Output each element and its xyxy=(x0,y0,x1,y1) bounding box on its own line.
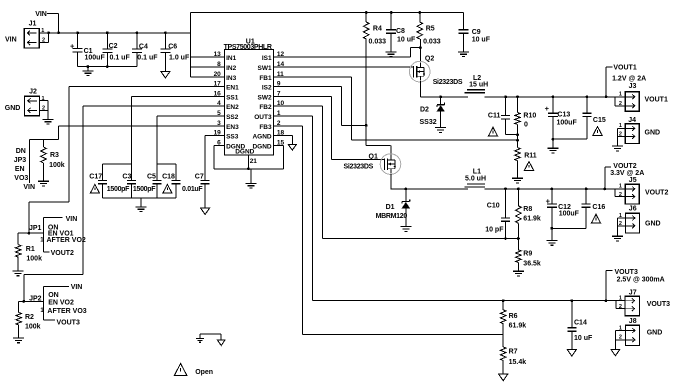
svg-text:C10: C10 xyxy=(487,203,500,210)
svg-text:R8: R8 xyxy=(523,206,532,213)
svg-text:C11: C11 xyxy=(488,113,501,120)
svg-text:VOUT3: VOUT3 xyxy=(57,319,80,326)
svg-text:R5: R5 xyxy=(426,26,435,33)
svg-text:3.3V @ 2A: 3.3V @ 2A xyxy=(610,170,644,177)
svg-text:1: 1 xyxy=(619,296,622,302)
svg-text:VIN: VIN xyxy=(35,11,47,18)
svg-text:5.0 uH: 5.0 uH xyxy=(465,176,486,183)
svg-text:VOUT3: VOUT3 xyxy=(615,269,638,276)
svg-text:DGND: DGND xyxy=(235,148,254,155)
svg-text:R7: R7 xyxy=(509,349,518,356)
svg-text:10 uF: 10 uF xyxy=(472,37,491,44)
svg-text:0.1 uF: 0.1 uF xyxy=(137,54,158,61)
svg-text:SS2: SS2 xyxy=(226,114,239,121)
svg-text:Open: Open xyxy=(195,369,213,376)
svg-text:100k: 100k xyxy=(25,323,41,330)
svg-text:15.4k: 15.4k xyxy=(509,359,527,366)
svg-text:C18: C18 xyxy=(162,173,175,180)
svg-text:C15: C15 xyxy=(593,117,606,124)
svg-text:C4: C4 xyxy=(139,44,148,51)
svg-text:VOUT1: VOUT1 xyxy=(645,96,668,103)
svg-text:Si2323DS: Si2323DS xyxy=(344,164,374,171)
svg-text:2: 2 xyxy=(619,304,622,310)
svg-text:Si2323DS: Si2323DS xyxy=(433,79,463,86)
svg-text:GND: GND xyxy=(645,130,661,137)
svg-text:J1: J1 xyxy=(29,20,37,27)
svg-text:R9: R9 xyxy=(523,250,532,257)
svg-text:VIN: VIN xyxy=(5,37,17,44)
svg-text:2: 2 xyxy=(619,335,622,341)
svg-text:R3: R3 xyxy=(50,152,59,159)
svg-text:AFTER VO2: AFTER VO2 xyxy=(47,237,86,244)
svg-text:C7: C7 xyxy=(195,173,204,180)
svg-text:R2: R2 xyxy=(25,314,34,321)
svg-text:10 pF: 10 pF xyxy=(485,227,504,234)
svg-text:VOUT2: VOUT2 xyxy=(51,250,74,257)
svg-text:2: 2 xyxy=(619,192,622,198)
svg-text:ON: ON xyxy=(48,292,59,299)
svg-text:1: 1 xyxy=(619,92,622,98)
svg-text:10 uF: 10 uF xyxy=(574,335,593,342)
svg-text:C6: C6 xyxy=(168,44,177,51)
svg-text:TPS75003PHLR: TPS75003PHLR xyxy=(224,44,272,51)
svg-text:21: 21 xyxy=(250,158,258,165)
svg-text:C5: C5 xyxy=(147,173,156,180)
svg-text:L1: L1 xyxy=(473,168,481,175)
svg-text:IN1: IN1 xyxy=(226,55,237,62)
svg-text:+: + xyxy=(545,104,550,113)
svg-text:2: 2 xyxy=(619,221,622,227)
svg-text:D2: D2 xyxy=(420,107,429,114)
svg-text:2: 2 xyxy=(619,132,622,138)
svg-text:VIN: VIN xyxy=(66,216,78,223)
svg-text:100uF: 100uF xyxy=(559,210,580,217)
svg-text:FB2: FB2 xyxy=(259,104,272,111)
svg-text:D1: D1 xyxy=(386,204,395,211)
svg-text:J4: J4 xyxy=(628,117,636,124)
svg-text:MBRM120: MBRM120 xyxy=(376,213,408,220)
svg-text:15 uH: 15 uH xyxy=(469,81,488,88)
svg-text:GND: GND xyxy=(645,220,661,227)
svg-text:C2: C2 xyxy=(109,43,118,50)
svg-text:DN: DN xyxy=(16,148,26,155)
svg-text:EN3: EN3 xyxy=(226,124,239,131)
svg-text:R10: R10 xyxy=(523,113,536,120)
svg-text:0: 0 xyxy=(524,122,528,129)
svg-text:SS3: SS3 xyxy=(226,134,239,141)
svg-text:EN2: EN2 xyxy=(226,104,239,111)
svg-text:IS1: IS1 xyxy=(262,55,272,62)
svg-text:VIN: VIN xyxy=(23,184,35,191)
svg-text:J2: J2 xyxy=(29,89,37,96)
svg-text:VOUT2: VOUT2 xyxy=(645,189,668,196)
svg-text:VO3: VO3 xyxy=(14,175,28,182)
svg-text:1: 1 xyxy=(619,325,622,331)
svg-text:0.01uF: 0.01uF xyxy=(182,186,203,193)
svg-text:61.9k: 61.9k xyxy=(523,215,541,222)
svg-text:0.033: 0.033 xyxy=(423,39,441,46)
svg-text:100k: 100k xyxy=(49,162,65,169)
svg-text:J7: J7 xyxy=(629,290,637,297)
svg-text:2: 2 xyxy=(619,101,622,107)
svg-text:IS2: IS2 xyxy=(262,85,272,92)
svg-text:EN1: EN1 xyxy=(226,85,239,92)
svg-text:Q2: Q2 xyxy=(425,55,434,62)
svg-text:0.1 uF: 0.1 uF xyxy=(110,55,131,62)
svg-text:GND: GND xyxy=(5,105,21,112)
svg-text:C13: C13 xyxy=(557,111,570,118)
svg-text:2.5V @ 300mA: 2.5V @ 300mA xyxy=(617,276,665,283)
svg-text:1.2V @ 2A: 1.2V @ 2A xyxy=(612,76,646,83)
svg-text:C16: C16 xyxy=(592,204,605,211)
svg-text:AGND: AGND xyxy=(252,134,271,141)
svg-text:C3: C3 xyxy=(122,173,131,180)
svg-text:1: 1 xyxy=(619,184,622,190)
svg-text:100uF: 100uF xyxy=(557,120,578,127)
svg-text:100k: 100k xyxy=(26,256,42,263)
svg-text:R4: R4 xyxy=(373,26,382,33)
svg-text:C14: C14 xyxy=(574,319,587,326)
svg-text:SS32: SS32 xyxy=(420,119,437,126)
svg-text:JP1: JP1 xyxy=(29,225,42,232)
svg-text:J5: J5 xyxy=(629,177,637,184)
svg-text:1500pF: 1500pF xyxy=(107,186,130,193)
svg-text:JP2: JP2 xyxy=(29,295,42,302)
svg-text:OUT3: OUT3 xyxy=(254,114,272,121)
svg-text:R6: R6 xyxy=(509,313,518,320)
svg-text:DGND: DGND xyxy=(252,143,271,150)
svg-text:1500pF: 1500pF xyxy=(133,186,156,193)
svg-text:AFTER VO3: AFTER VO3 xyxy=(47,308,86,315)
svg-text:GND: GND xyxy=(647,330,663,337)
svg-text:SW2: SW2 xyxy=(258,94,272,101)
svg-text:IN2: IN2 xyxy=(226,65,237,72)
svg-text:C8: C8 xyxy=(396,28,405,35)
svg-text:Q1: Q1 xyxy=(369,154,378,161)
svg-text:IN3: IN3 xyxy=(226,75,237,82)
svg-text:36.5k: 36.5k xyxy=(523,260,541,267)
svg-text:61.9k: 61.9k xyxy=(509,323,527,330)
svg-text:R1: R1 xyxy=(26,246,35,253)
svg-text:1: 1 xyxy=(619,213,622,219)
svg-text:J6: J6 xyxy=(629,206,637,213)
svg-text:VOUT3: VOUT3 xyxy=(647,301,670,308)
svg-text:JP3: JP3 xyxy=(14,157,27,164)
svg-text:1.0 uF: 1.0 uF xyxy=(169,54,190,61)
svg-text:FB3: FB3 xyxy=(259,124,272,131)
svg-text:J8: J8 xyxy=(629,318,637,325)
svg-text:+: + xyxy=(546,197,551,206)
svg-text:SS1: SS1 xyxy=(226,94,239,101)
svg-text:VOUT2: VOUT2 xyxy=(613,163,636,170)
svg-text:FB1: FB1 xyxy=(259,75,272,82)
svg-text:VIN: VIN xyxy=(71,284,83,291)
svg-text:0.033: 0.033 xyxy=(369,39,387,46)
svg-text:100uF: 100uF xyxy=(85,55,106,62)
svg-text:EN VO2: EN VO2 xyxy=(48,300,74,307)
svg-text:VOUT1: VOUT1 xyxy=(613,64,636,71)
svg-text:EN: EN xyxy=(15,166,25,173)
svg-text:R11: R11 xyxy=(524,152,537,159)
svg-text:C17: C17 xyxy=(89,173,102,180)
svg-text:1: 1 xyxy=(619,123,622,129)
svg-text:+: + xyxy=(70,42,75,51)
svg-text:J3: J3 xyxy=(629,83,637,90)
svg-text:SW1: SW1 xyxy=(258,65,272,72)
svg-text:C9: C9 xyxy=(472,29,481,36)
svg-text:10 uF: 10 uF xyxy=(397,37,416,44)
